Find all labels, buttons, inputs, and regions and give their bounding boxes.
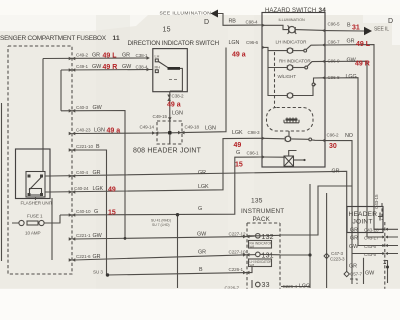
svg-text:10 AMP: 10 AMP (25, 231, 41, 236)
svg-text:C96-1: C96-1 (247, 151, 260, 156)
svg-text:GW: GW (93, 105, 103, 111)
svg-text:GR: GR (198, 170, 206, 176)
svg-text:C96-8: C96-8 (328, 75, 341, 80)
svg-text:GR: GR (350, 235, 358, 241)
svg-text:C96-7: C96-7 (328, 40, 341, 45)
svg-text:HEADER: HEADER (349, 211, 378, 218)
svg-text:C96-5: C96-5 (328, 22, 341, 27)
svg-text:15: 15 (235, 162, 243, 169)
svg-text:DIRECTION INDICATOR SWITCH: DIRECTION INDICATOR SWITCH (128, 40, 219, 47)
svg-text:C221-6: C221-6 (76, 254, 91, 259)
svg-text:C221-1: C221-1 (76, 233, 91, 238)
svg-text:C38-4: C38-4 (136, 65, 149, 70)
svg-text:C227-12: C227-12 (229, 232, 246, 237)
svg-text:GR: GR (350, 228, 358, 234)
svg-text:SENGER COMPARTMENT FUSEBOX: SENGER COMPARTMENT FUSEBOX (0, 35, 107, 42)
svg-text:C226-4: C226-4 (283, 284, 298, 289)
svg-text:C40-10: C40-10 (76, 209, 91, 214)
svg-text:FUSE 1: FUSE 1 (27, 214, 43, 219)
svg-text:C43-5: C43-5 (364, 252, 377, 257)
svg-text:C226-1: C226-1 (229, 267, 244, 272)
svg-text:49 R: 49 R (355, 61, 370, 68)
svg-text:GW: GW (122, 64, 132, 70)
svg-text:W/L: W/L (250, 245, 256, 249)
svg-text:W/LIGHT: W/LIGHT (278, 74, 297, 79)
svg-text:FLASHER UNIT: FLASHER UNIT (21, 201, 53, 206)
svg-text:C223-3: C223-3 (330, 257, 345, 262)
svg-text:808 HEADER JOINT: 808 HEADER JOINT (133, 148, 202, 155)
svg-text:LGK: LGK (93, 186, 104, 192)
svg-text:LGN: LGN (205, 126, 216, 132)
svg-text:C49-18: C49-18 (185, 125, 200, 130)
svg-text:PACK: PACK (253, 216, 271, 223)
svg-text:C43-6: C43-6 (364, 244, 377, 249)
svg-text:GW: GW (92, 64, 102, 70)
svg-text:G: G (94, 209, 98, 215)
svg-text:RH INDICATOR: RH INDICATOR (279, 58, 311, 63)
svg-text:JOINT: JOINT (353, 219, 373, 226)
svg-text:31: 31 (352, 25, 360, 32)
svg-text:RB: RB (229, 19, 237, 25)
svg-text:GW: GW (197, 232, 207, 238)
svg-text:GR: GR (332, 169, 340, 175)
svg-text:LGN: LGN (94, 128, 105, 134)
svg-text:30: 30 (329, 143, 337, 150)
svg-text:49: 49 (234, 142, 242, 149)
svg-text:34: 34 (319, 7, 327, 14)
svg-text:GR: GR (93, 254, 101, 260)
svg-text:C38-2: C38-2 (172, 94, 185, 99)
svg-text:GR: GR (92, 53, 100, 59)
svg-text:C43-15: C43-15 (374, 194, 379, 209)
svg-text:135: 135 (251, 198, 263, 205)
svg-text:ILLUMINATION: ILLUMINATION (279, 18, 306, 22)
svg-text:C40-24: C40-24 (74, 186, 89, 191)
svg-text:GW: GW (365, 271, 375, 277)
svg-text:SEE ILLUMINATION: SEE ILLUMINATION (160, 11, 212, 17)
svg-text:49 a: 49 a (107, 128, 121, 135)
svg-text:GR: GR (349, 264, 357, 270)
svg-text:LGK: LGK (232, 130, 243, 136)
svg-text:C98-3: C98-3 (248, 130, 261, 135)
svg-text:49: 49 (108, 187, 116, 194)
svg-text:G: G (198, 206, 202, 212)
svg-text:131: 131 (262, 253, 274, 260)
svg-text:B: B (199, 267, 203, 273)
svg-text:SU 3: SU 3 (93, 270, 103, 275)
svg-text:GR: GR (93, 170, 101, 176)
svg-text:C49-14: C49-14 (140, 125, 155, 130)
svg-text:D: D (204, 19, 209, 26)
svg-text:GW: GW (349, 244, 359, 250)
svg-text:D: D (388, 18, 393, 25)
svg-text:C38-1: C38-1 (136, 53, 149, 58)
svg-text:B: B (96, 144, 100, 150)
svg-text:SU 7 (LHD): SU 7 (LHD) (152, 223, 170, 227)
svg-text:C98-4: C98-4 (246, 20, 259, 25)
svg-text:LGK: LGK (198, 184, 209, 190)
svg-text:GR: GR (198, 250, 206, 256)
svg-text:C96-6: C96-6 (246, 40, 259, 45)
svg-text:C227-10: C227-10 (229, 250, 246, 255)
svg-text:RH: RH (155, 65, 161, 69)
svg-text:HAZARD SWITCH: HAZARD SWITCH (265, 8, 316, 14)
svg-text:NO: NO (345, 133, 353, 139)
svg-text:11: 11 (113, 35, 120, 42)
svg-text:LGG: LGG (346, 74, 357, 80)
svg-text:C49-15: C49-15 (153, 114, 168, 119)
svg-text:15: 15 (108, 210, 116, 217)
svg-text:G: G (236, 150, 240, 156)
svg-text:C40-4: C40-4 (76, 170, 89, 175)
svg-text:C43-20: C43-20 (364, 228, 379, 233)
svg-text:GW: GW (93, 233, 103, 239)
svg-text:LGG: LGG (299, 284, 310, 290)
svg-text:C57-7: C57-7 (350, 272, 363, 277)
svg-text:LGN: LGN (172, 111, 183, 117)
svg-text:49 a: 49 a (232, 52, 246, 59)
svg-text:15: 15 (163, 27, 171, 34)
svg-text:132: 132 (262, 234, 274, 241)
svg-text:49 R: 49 R (103, 64, 118, 71)
svg-text:49 L: 49 L (103, 53, 118, 60)
svg-text:C40-23: C40-23 (76, 128, 91, 133)
svg-text:C47-3: C47-3 (331, 251, 344, 256)
svg-text:LH: LH (155, 55, 160, 59)
svg-text:C49-2: C49-2 (76, 53, 89, 58)
svg-text:C96-2: C96-2 (327, 133, 340, 138)
svg-text:INSTRUMENT: INSTRUMENT (241, 208, 284, 215)
svg-text:C40-3: C40-3 (76, 105, 89, 110)
svg-text:LGN: LGN (229, 40, 240, 46)
svg-text:49 L: 49 L (356, 41, 371, 48)
svg-text:B: B (347, 23, 351, 29)
svg-text:C43-17: C43-17 (364, 235, 379, 240)
svg-text:49 a: 49 a (167, 102, 181, 109)
svg-text:C96-9: C96-9 (328, 59, 341, 64)
svg-text:GR: GR (122, 53, 130, 59)
svg-text:GR: GR (347, 39, 355, 45)
svg-text:SU 41 (RHD): SU 41 (RHD) (151, 219, 171, 223)
svg-text:33: 33 (262, 282, 270, 289)
svg-text:LH INDICATOR: LH INDICATOR (276, 40, 308, 45)
svg-text:C49-1: C49-1 (76, 64, 89, 69)
svg-text:SEE IL: SEE IL (374, 27, 389, 33)
svg-text:C221-10: C221-10 (76, 144, 93, 149)
svg-text:W/L: W/L (250, 264, 256, 268)
